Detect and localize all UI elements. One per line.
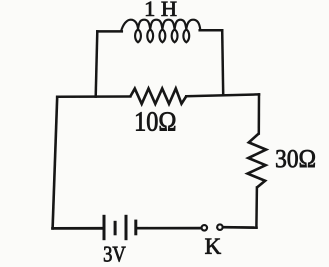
resistor R2 30 ohm (vertical zigzag) xyxy=(248,134,267,188)
wire: bottom left segment to battery xyxy=(53,227,103,230)
battery B1 plate 2 (short) xyxy=(114,221,117,236)
wire: bottom right segment from switch to corner xyxy=(223,226,256,229)
battery B1 plate 1 (long) xyxy=(103,215,106,240)
switch K terminal circle left xyxy=(202,225,208,231)
battery B1 plate 3 (long) xyxy=(125,215,128,240)
value label 10 ohm xyxy=(136,112,175,131)
wire: bottom middle segment battery to switch xyxy=(137,227,201,230)
resistor R1 10 ohm (zigzag) xyxy=(130,89,186,104)
value label 3V xyxy=(104,247,126,262)
wire: left vertical of main loop xyxy=(53,97,58,229)
wire: right vertical lower segment xyxy=(255,188,258,228)
wire: right stub down to top horizontal xyxy=(222,30,223,95)
label K xyxy=(205,239,221,254)
switch K terminal circle right xyxy=(217,224,223,230)
wire: right vertical upper segment xyxy=(258,94,261,133)
inductor L1 coil (1 H) xyxy=(121,20,200,43)
battery B1 plate 4 (short) xyxy=(134,220,137,236)
wire: inductor branch left lead xyxy=(97,30,122,33)
wire: inductor branch right lead xyxy=(200,29,223,32)
wire: top horizontal, right segment xyxy=(186,94,259,96)
value label 30 ohm xyxy=(276,150,315,167)
wire: left stub up to inductor branch xyxy=(96,31,98,96)
value label 1 H xyxy=(146,2,176,16)
wire: top horizontal, left segment to 10-ohm resistor xyxy=(57,95,130,98)
